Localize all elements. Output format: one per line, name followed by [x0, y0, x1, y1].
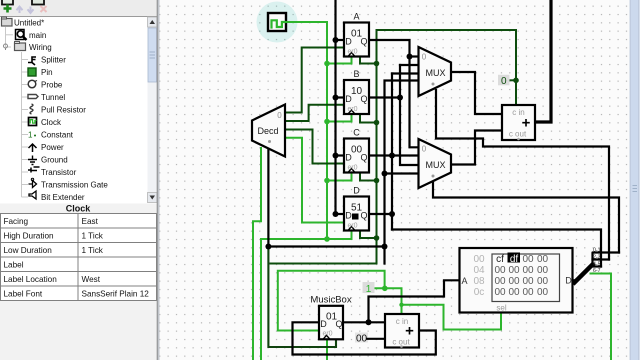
- svg-text:1 Tick: 1 Tick: [82, 232, 104, 241]
- canvas background: [159, 0, 640, 360]
- svg-text:0: 0: [277, 111, 282, 120]
- svg-text:00: 00: [537, 265, 549, 276]
- wire adder1 out going up: [535, 0, 551, 122]
- svg-text:00: 00: [537, 276, 549, 287]
- svg-text:c out: c out: [509, 130, 527, 139]
- svg-text:main: main: [29, 31, 46, 40]
- svg-text:0-1: 0-1: [593, 248, 601, 254]
- svg-text:D: D: [345, 211, 352, 221]
- svg-text:Transmission Gate: Transmission Gate: [41, 181, 108, 190]
- svg-text:Tunnel: Tunnel: [41, 93, 65, 102]
- svg-text:Q: Q: [360, 211, 367, 221]
- svg-text:MUX: MUX: [426, 160, 446, 170]
- svg-text:0: 0: [501, 76, 507, 87]
- adder U2: [385, 314, 419, 348]
- svg-text:High Duration: High Duration: [4, 232, 55, 241]
- wire MUX1 out to adder1 in1: [451, 72, 502, 114]
- svg-text:Clock: Clock: [66, 204, 92, 214]
- svg-text:Label: Label: [4, 261, 24, 270]
- toolbar remnant strip: [0, 0, 159, 17]
- svg-text:0: 0: [422, 145, 427, 154]
- constant 00 at adder2 in2: [355, 333, 368, 343]
- label value "0" probe at adder1 c-in: [498, 75, 510, 86]
- svg-text:Probe: Probe: [41, 81, 63, 90]
- svg-text:cf: cf: [496, 254, 504, 265]
- svg-text:00: 00: [522, 287, 534, 298]
- wire L1: reg riser to splitter branch3: [392, 230, 601, 267]
- wire main bus x=335.5: [336, 0, 345, 214]
- svg-text:0: 0: [422, 53, 427, 62]
- svg-text:00: 00: [494, 265, 506, 276]
- register MusicBox: [310, 295, 351, 340]
- svg-text:00: 00: [508, 265, 520, 276]
- svg-text:East: East: [82, 217, 99, 226]
- svg-text:MusicBox: MusicBox: [310, 295, 351, 306]
- wire MUX2 select to splitter branch1: [433, 183, 619, 253]
- svg-text:08: 08: [473, 276, 485, 287]
- mux MUX1: [419, 47, 452, 96]
- project tree: [2, 17, 109, 202]
- svg-text:Wiring: Wiring: [29, 43, 52, 52]
- svg-text:SansSerif Plain 12: SansSerif Plain 12: [82, 290, 150, 299]
- svg-text:er0: er0: [347, 106, 357, 113]
- svg-text:sel: sel: [496, 304, 506, 313]
- svg-text:c out: c out: [392, 338, 410, 347]
- svg-text:Label Location: Label Location: [4, 275, 58, 284]
- svg-text:1: 1: [28, 131, 33, 140]
- register D: [344, 186, 369, 231]
- svg-text:00: 00: [508, 287, 520, 298]
- label value "1": [363, 282, 375, 293]
- tree guides: [6, 27, 29, 197]
- svg-text:Low Duration: Low Duration: [4, 246, 53, 255]
- wire MUX1 select to splitter branch2: [436, 90, 609, 260]
- wire reg C Q / reg D Q riser to MUX1 in3 / MUX2 in2 / L1: [369, 74, 419, 230]
- svg-text:Q: Q: [360, 153, 367, 163]
- svg-text:1 Tick: 1 Tick: [82, 246, 104, 255]
- adder U1: [502, 105, 535, 140]
- row Wiring: [4, 42, 52, 53]
- ROM: [460, 248, 573, 313]
- svg-text:D: D: [353, 186, 360, 196]
- svg-text:Q: Q: [360, 37, 367, 47]
- svg-text:00: 00: [537, 254, 549, 265]
- wire Decd out1 to reg A enable (dark green): [285, 48, 344, 164]
- svg-text:er0: er0: [322, 331, 332, 338]
- decoder Decd: [252, 105, 285, 157]
- wire reg B Q to MUX1 in2 / MUX2 in3: [369, 65, 419, 165]
- svg-text:Facing: Facing: [4, 217, 29, 226]
- svg-text:A: A: [461, 276, 467, 286]
- svg-text:6-7: 6-7: [593, 268, 601, 274]
- svg-text:2-3: 2-3: [593, 255, 601, 261]
- svg-text:00: 00: [508, 276, 520, 287]
- svg-text:er0: er0: [347, 165, 357, 172]
- mux MUX2: [419, 139, 452, 188]
- svg-text:C: C: [353, 128, 360, 138]
- panel divider: [157, 0, 160, 360]
- svg-text:D: D: [565, 276, 572, 286]
- svg-text:00: 00: [522, 276, 534, 287]
- splitter SP1: [573, 248, 620, 360]
- svg-text:00: 00: [522, 254, 534, 265]
- wire MusicBox Q to RAM A and adder2 in1: [343, 280, 460, 322]
- svg-text:00: 00: [494, 287, 506, 298]
- svg-text:Decd: Decd: [257, 126, 278, 136]
- left panel: [0, 0, 160, 360]
- right scrollbar: [630, 0, 640, 360]
- svg-text:er0: er0: [347, 49, 357, 56]
- svg-text:00: 00: [522, 265, 534, 276]
- svg-text:B: B: [353, 69, 359, 79]
- leaf rows: [28, 56, 66, 66]
- svg-text:Power: Power: [41, 143, 64, 152]
- explorer mini toolbar: add, up, down, delete: [4, 5, 47, 14]
- svg-text:1: 1: [366, 284, 372, 295]
- svg-text:D: D: [345, 153, 352, 163]
- svg-text:Bit Extender: Bit Extender: [41, 193, 85, 202]
- svg-text:A: A: [353, 12, 359, 22]
- register B: [344, 69, 369, 114]
- clock CLK1: [268, 13, 286, 31]
- svg-text:Pin: Pin: [41, 68, 53, 77]
- wire decoder select net (bright green): [253, 148, 261, 360]
- svg-text:Q: Q: [360, 94, 367, 104]
- svg-text:Ground: Ground: [41, 156, 68, 165]
- svg-text:0c: 0c: [474, 287, 485, 298]
- svg-text:4-5: 4-5: [593, 262, 601, 268]
- wire clock net: [261, 22, 352, 360]
- wire dark green net: register bottom pins / adder1 c-in: [271, 30, 517, 264]
- register C: [344, 128, 369, 173]
- register A: [344, 12, 369, 57]
- svg-text:Transistor: Transistor: [41, 168, 77, 177]
- wire MusicBox reg bottom pin net (dark): [268, 247, 336, 348]
- row main: [16, 30, 47, 41]
- svg-text:MUX: MUX: [426, 68, 446, 78]
- svg-text:er0: er0: [347, 223, 357, 230]
- wire register D enable net (bright green from Decd out4): [285, 138, 344, 223]
- svg-text:West: West: [82, 275, 101, 284]
- svg-text:D: D: [345, 37, 352, 47]
- row Untitled: [2, 17, 45, 28]
- wire reg A Q to MUX1 in1 / MUX2 in1: [369, 40, 419, 147]
- svg-text:00: 00: [356, 334, 368, 345]
- clock halo: [257, 2, 298, 43]
- svg-text:00: 00: [537, 287, 549, 298]
- attribute panel: [0, 204, 159, 360]
- svg-text:00: 00: [473, 254, 485, 265]
- svg-text:D: D: [345, 94, 352, 104]
- svg-text:Untitled*: Untitled*: [14, 19, 44, 28]
- svg-text:Clock: Clock: [41, 118, 62, 127]
- svg-text:D: D: [320, 319, 327, 329]
- svg-text:Pull Resistor: Pull Resistor: [41, 106, 86, 115]
- junction clock dots: [324, 61, 330, 242]
- wire adder2 out loop to MusicBox D: [293, 322, 436, 354]
- svg-text:Splitter: Splitter: [41, 56, 66, 65]
- svg-text:Label Font: Label Font: [4, 290, 43, 299]
- svg-text:00: 00: [494, 276, 506, 287]
- tree scrollbar: [148, 17, 158, 203]
- svg-text:Q: Q: [335, 319, 342, 329]
- svg-text:04: 04: [473, 265, 485, 276]
- svg-text:Constant: Constant: [41, 131, 74, 140]
- svg-text:df: df: [510, 254, 519, 265]
- wire MUX2 out to adder1 in2: [451, 131, 502, 165]
- wire MUX in4 net / L2 / Decd select vertical: [268, 81, 418, 264]
- wire "1" net: MusicBox enable / RAM sel / adder2 c-in: [278, 271, 501, 331]
